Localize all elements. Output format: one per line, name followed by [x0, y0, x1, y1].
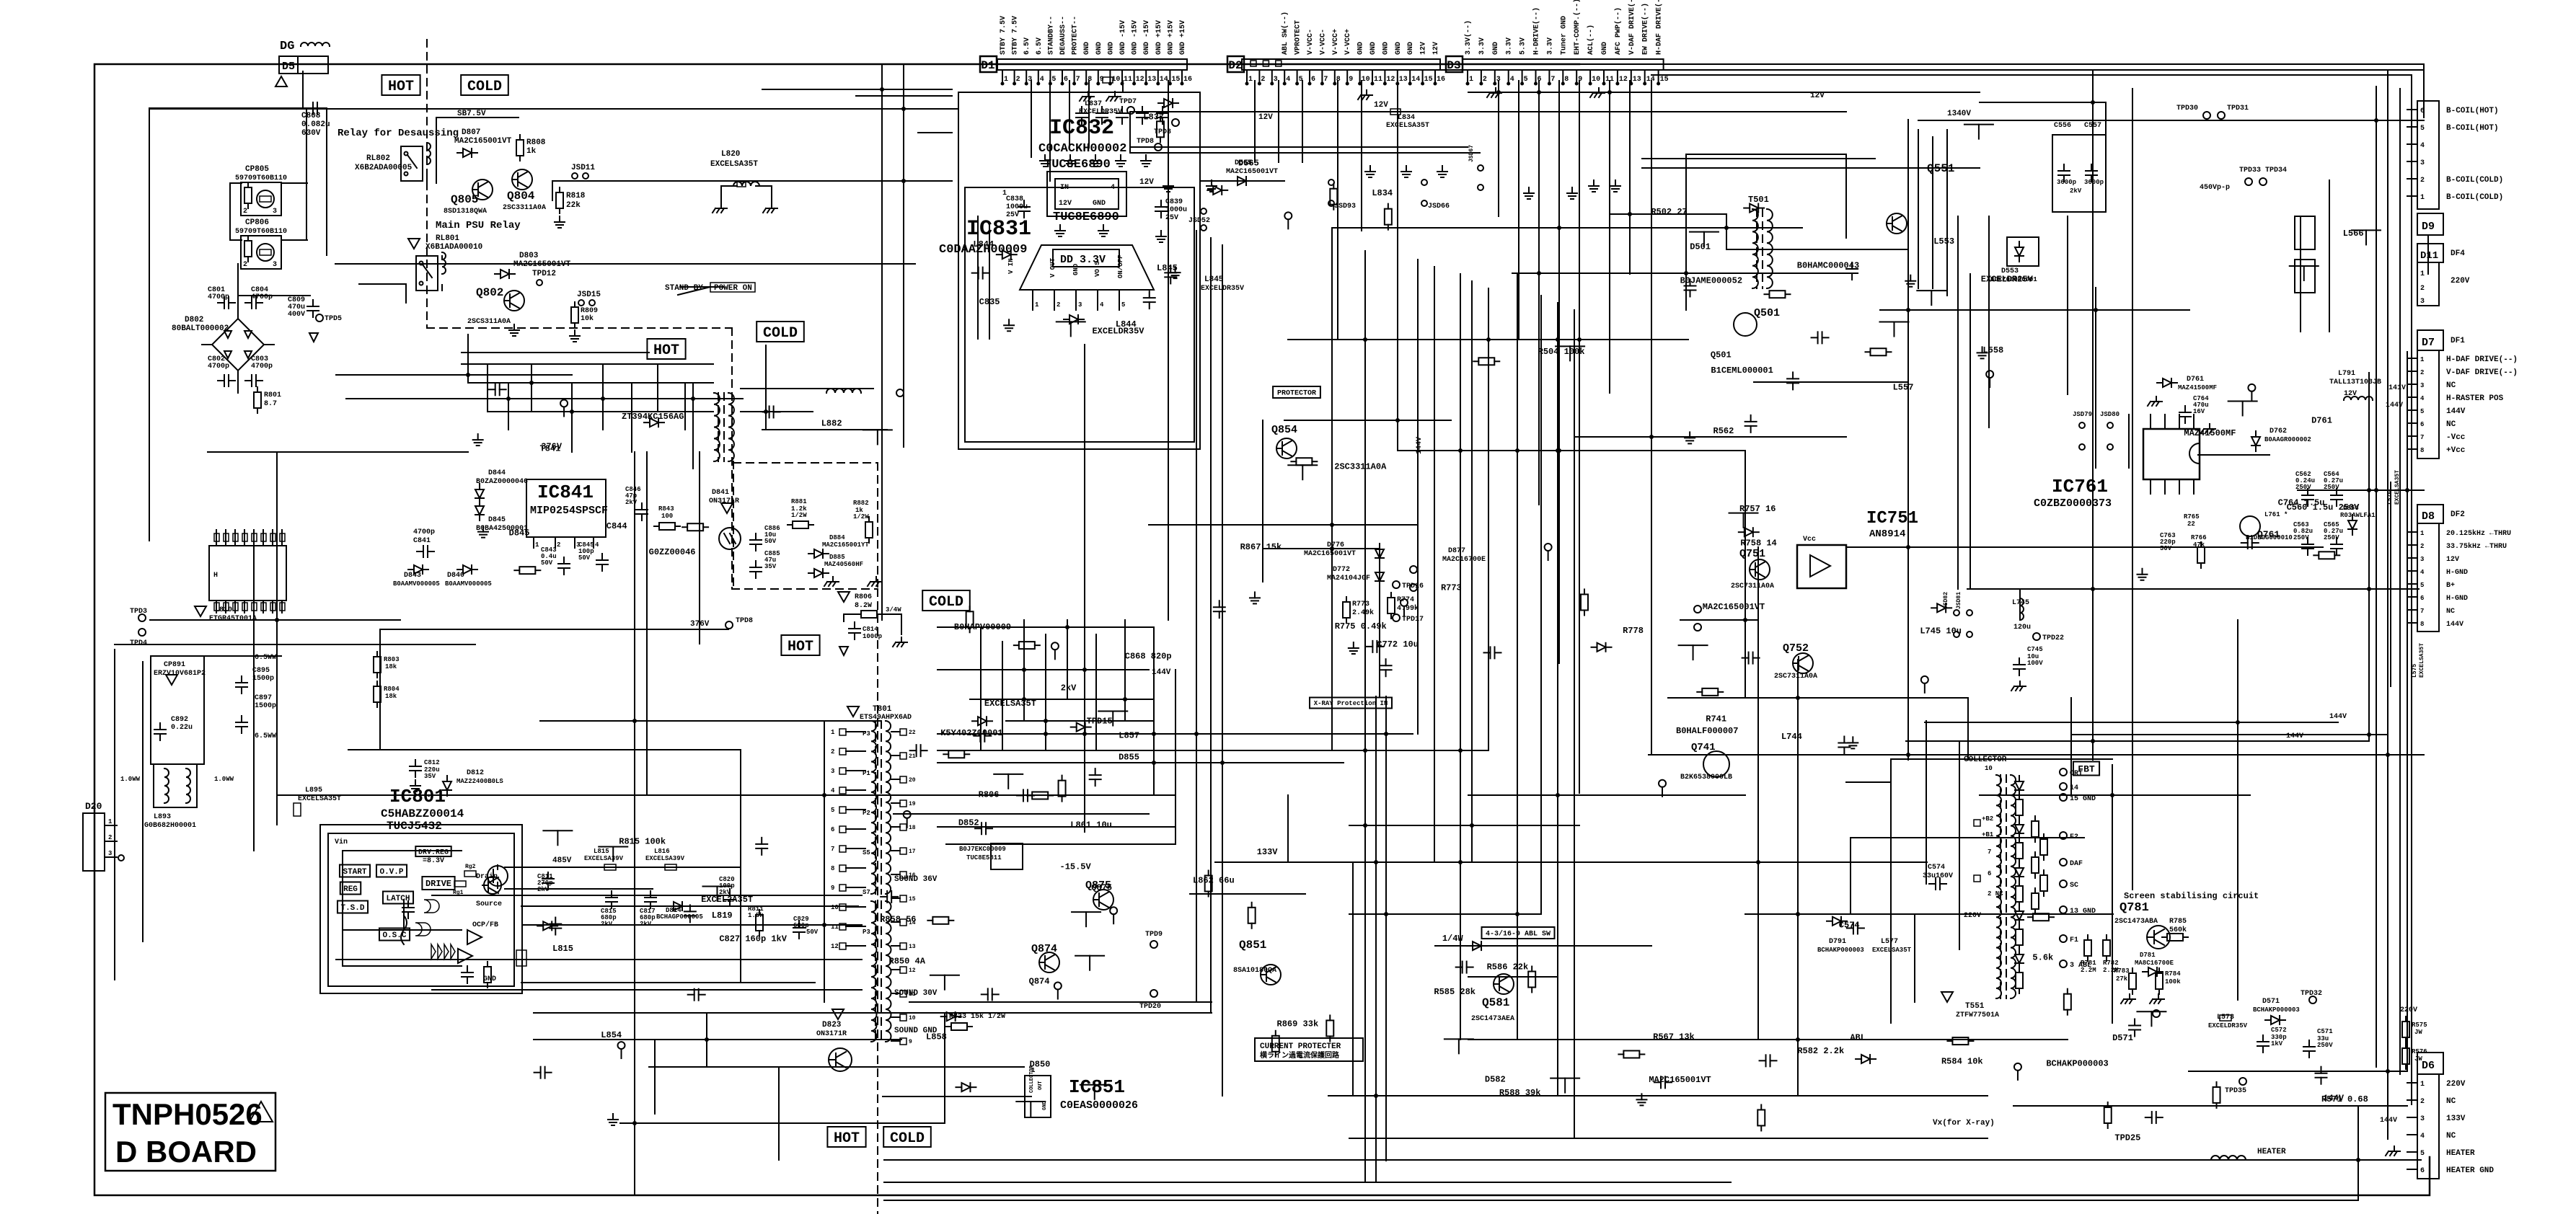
svg-text:VO S: VO S [1094, 261, 1101, 277]
svg-text:P3: P3 [863, 929, 870, 936]
svg-text:630V: 630V [301, 129, 321, 138]
svg-text:5: 5 [1121, 301, 1125, 309]
svg-text:COLD: COLD [763, 325, 798, 342]
svg-text:B2K6538000LB: B2K6538000LB [1680, 774, 1732, 781]
svg-text:50V: 50V [2160, 545, 2172, 552]
svg-text:1000u: 1000u [1006, 203, 1028, 211]
svg-text:D803: D803 [519, 252, 539, 260]
svg-text:D845: D845 [509, 528, 530, 539]
svg-text:33u160V: 33u160V [1923, 872, 1953, 880]
svg-text:V-VCC+: V-VCC+ [1332, 29, 1340, 55]
svg-text:D812: D812 [467, 769, 484, 777]
svg-text:D884: D884 [829, 534, 845, 541]
svg-text:GND +15V: GND +15V [1155, 20, 1163, 55]
svg-text:EXCELSA35T: EXCELSA35T [2419, 643, 2425, 678]
svg-text:CP891: CP891 [164, 661, 185, 669]
svg-text:GND: GND [1083, 42, 1091, 55]
svg-text:3: 3 [2420, 382, 2424, 389]
svg-text:NC: NC [2446, 1132, 2456, 1140]
svg-text:GND: GND [1407, 42, 1415, 55]
svg-text:V-VCC+: V-VCC+ [1344, 29, 1352, 55]
svg-text:2kV: 2kV [1061, 683, 1077, 693]
svg-text:5.6k: 5.6k [2032, 952, 2053, 962]
svg-text:1000u: 1000u [1165, 206, 1187, 214]
svg-text:R765: R765 [2184, 513, 2200, 520]
svg-text:13: 13 [909, 944, 916, 950]
svg-text:F2: F2 [2070, 833, 2078, 841]
svg-text:EXCELSA35T: EXCELSA35T [2394, 470, 2401, 505]
svg-text:ABL: ABL [1850, 1033, 1866, 1043]
svg-text:MA2C165001YT: MA2C165001YT [822, 541, 869, 549]
svg-text:D772: D772 [1333, 566, 1350, 574]
svg-text:1k: 1k [526, 147, 537, 156]
svg-text:12: 12 [1619, 76, 1628, 84]
svg-text:1: 1 [2420, 530, 2425, 537]
svg-text:4: 4 [595, 541, 599, 549]
svg-text:1000p: 1000p [863, 633, 882, 640]
svg-text:50V: 50V [578, 554, 591, 562]
svg-text:EXCELDR35V: EXCELDR35V [1092, 326, 1144, 336]
svg-text:EW DRIVE(--): EW DRIVE(--) [1641, 3, 1650, 55]
svg-text:Q781: Q781 [2120, 901, 2149, 915]
svg-text:D571: D571 [2112, 1033, 2133, 1043]
svg-text:L810: L810 [215, 606, 232, 614]
svg-text:R774: R774 [1397, 596, 1414, 604]
svg-text:Q802: Q802 [476, 286, 503, 299]
svg-text:START: START [343, 868, 366, 877]
svg-text:PROTECTOR: PROTECTOR [1277, 390, 1316, 398]
svg-text:2kV: 2kV [625, 499, 638, 506]
svg-text:GND: GND [1357, 42, 1365, 55]
svg-text:Q804: Q804 [507, 190, 535, 203]
svg-text:1: 1 [2420, 1081, 2425, 1089]
svg-text:5: 5 [2420, 408, 2424, 415]
svg-text:R571 0.68: R571 0.68 [2321, 1094, 2368, 1104]
svg-text:D877: D877 [1448, 547, 1465, 555]
svg-text:R562: R562 [1713, 426, 1734, 436]
svg-text:35V: 35V [424, 773, 436, 780]
svg-text:4: 4 [2420, 142, 2425, 150]
svg-text:3: 3 [273, 208, 277, 216]
svg-text:Q551: Q551 [1927, 162, 1954, 175]
svg-text:144V: 144V [2329, 713, 2347, 721]
svg-text:1500p: 1500p [252, 675, 274, 683]
svg-text:2SCS311A0A: 2SCS311A0A [467, 318, 511, 326]
svg-text:横ライン過電流保護回路: 横ライン過電流保護回路 [1260, 1050, 1340, 1060]
svg-text:TPD12: TPD12 [532, 270, 556, 278]
svg-text:JSD15: JSD15 [577, 291, 601, 299]
svg-text:V-VCC-: V-VCC- [1319, 29, 1327, 55]
svg-text:376V: 376V [690, 620, 710, 629]
svg-text:376V: 376V [541, 442, 563, 452]
svg-text:D776: D776 [1327, 541, 1344, 549]
svg-text:4.99k: 4.99k [1397, 604, 1419, 613]
svg-text:IN: IN [1060, 184, 1069, 192]
svg-text:11: 11 [1124, 76, 1132, 84]
svg-text:D840: D840 [447, 572, 464, 580]
svg-text:D802: D802 [185, 316, 203, 324]
svg-text:D5: D5 [282, 61, 295, 73]
svg-text:Vin: Vin [335, 838, 348, 846]
svg-text:D20: D20 [85, 801, 102, 812]
svg-text:8: 8 [2420, 621, 2424, 628]
svg-text:P3: P3 [863, 730, 870, 737]
svg-text:18: 18 [909, 825, 916, 831]
svg-text:Q805: Q805 [451, 193, 478, 206]
svg-text:C556: C556 [2054, 122, 2071, 130]
svg-text:ERZV10V681P2: ERZV10V681P2 [154, 670, 206, 678]
svg-text:IC841: IC841 [537, 482, 594, 503]
svg-text:JSD81: JSD81 [1956, 592, 1962, 609]
svg-text:12V: 12V [1374, 101, 1388, 110]
svg-text:2: 2 [2420, 369, 2424, 376]
svg-text:7: 7 [1323, 76, 1328, 84]
svg-text:5: 5 [1524, 76, 1528, 84]
svg-text:2: 2 [557, 541, 560, 549]
svg-text:COLD: COLD [890, 1130, 925, 1147]
svg-text:MA2C165001VT: MA2C165001VT [513, 260, 571, 269]
svg-text:STAND BY: STAND BY [665, 284, 703, 293]
svg-text:B0ZAZ0000046: B0ZAZ0000046 [476, 478, 528, 486]
svg-text:4700p: 4700p [251, 293, 273, 301]
svg-text:3: 3 [1078, 301, 1082, 309]
svg-text:IC761: IC761 [2052, 476, 2108, 497]
svg-text:Q851: Q851 [1239, 939, 1266, 952]
svg-text:Q581: Q581 [1482, 996, 1509, 1009]
svg-text:EXCEL2A35T: EXCEL2A35T [701, 895, 753, 905]
svg-text:L862 66u: L862 66u [1193, 875, 1235, 885]
svg-text:R504 100k: R504 100k [1538, 347, 1585, 357]
svg-text:TPD9: TPD9 [1145, 931, 1163, 939]
svg-text:TUC8E6890: TUC8E6890 [1044, 158, 1111, 172]
svg-text:11: 11 [831, 923, 839, 931]
svg-text:141V: 141V [2388, 384, 2406, 392]
svg-text:IC831: IC831 [966, 217, 1031, 242]
svg-text:1: 1 [1035, 301, 1039, 309]
svg-text:B1DEGG000010: B1DEGG000010 [2246, 534, 2293, 541]
svg-text:C835: C835 [979, 297, 1000, 307]
svg-text:R850 4A: R850 4A [889, 956, 926, 966]
svg-text:C814: C814 [863, 626, 878, 633]
svg-text:R867 15k: R867 15k [1240, 542, 1282, 552]
svg-text:EXCELDR35V: EXCELDR35V [1201, 285, 1244, 293]
svg-text:NC: NC [2446, 608, 2455, 616]
svg-text:L761 *: L761 * [2264, 511, 2288, 518]
svg-text:JW: JW [2414, 1029, 2422, 1036]
svg-text:10: 10 [831, 904, 839, 911]
svg-text:8SD1318QWA: 8SD1318QWA [444, 208, 487, 216]
svg-text:1: 1 [108, 818, 113, 825]
svg-text:C772 10u: C772 10u [1377, 639, 1419, 650]
svg-text:1.0WW: 1.0WW [120, 776, 141, 783]
svg-text:R881: R881 [791, 498, 807, 505]
svg-text:2: 2 [1483, 76, 1487, 84]
svg-text:=8.3V: =8.3V [423, 857, 444, 865]
svg-text:6: 6 [2420, 1167, 2425, 1175]
svg-text:TPD17: TPD17 [1402, 616, 1424, 624]
svg-text:21: 21 [909, 753, 916, 760]
svg-text:6: 6 [831, 826, 834, 833]
svg-text:144V: 144V [1152, 668, 1171, 677]
svg-text:HEATER: HEATER [2257, 1148, 2286, 1156]
svg-text:D885: D885 [829, 554, 845, 561]
svg-text:15: 15 [1171, 76, 1180, 84]
svg-text:T551: T551 [1965, 1002, 1985, 1011]
svg-text:2SC3311A0A: 2SC3311A0A [1334, 461, 1387, 471]
svg-text:D1: D1 [981, 59, 994, 72]
svg-text:TPD25: TPD25 [2114, 1133, 2140, 1143]
svg-text:D761: D761 [2187, 376, 2204, 384]
svg-text:R808: R808 [526, 138, 546, 147]
svg-text:B0AAGR000002: B0AAGR000002 [2264, 436, 2311, 443]
svg-text:10: 10 [909, 1015, 916, 1022]
svg-text:JSD79: JSD79 [2073, 411, 2092, 418]
svg-text:R809: R809 [581, 307, 598, 315]
svg-text:R843: R843 [658, 505, 674, 513]
svg-text:R869 33k: R869 33k [1277, 1019, 1319, 1029]
svg-text:ON3171R: ON3171R [709, 497, 739, 505]
svg-text:+B1: +B1 [1982, 831, 1994, 838]
svg-text:EXCELSA39V: EXCELSA39V [645, 855, 685, 862]
svg-text:9: 9 [909, 1039, 912, 1045]
svg-text:2SC1473AEA: 2SC1473AEA [1471, 1015, 1514, 1023]
svg-text:R03AWLFA1: R03AWLFA1 [2340, 512, 2376, 519]
svg-text:K5Y402Z00001: K5Y402Z00001 [940, 728, 1002, 738]
svg-text:5: 5 [2420, 582, 2424, 589]
svg-text:L861 10u: L861 10u [1070, 820, 1112, 830]
svg-text:B-COIL(COLD): B-COIL(COLD) [2446, 193, 2503, 202]
svg-text:L815: L815 [594, 848, 609, 855]
svg-text:4: 4 [2420, 395, 2425, 402]
svg-text:4700p: 4700p [208, 363, 229, 371]
svg-text:DRIVE: DRIVE [425, 879, 451, 889]
svg-text:1/4W: 1/4W [1442, 934, 1464, 944]
svg-text:25V: 25V [1006, 211, 1019, 219]
svg-text:144V: 144V [1416, 437, 1424, 454]
svg-text:10: 10 [1362, 76, 1370, 84]
svg-text:JSD80: JSD80 [2100, 411, 2120, 418]
svg-text:R801: R801 [264, 391, 281, 399]
svg-text:2.49k: 2.49k [1352, 608, 1374, 617]
svg-text:7: 7 [2420, 434, 2424, 441]
svg-text:+B2: +B2 [1982, 815, 1993, 823]
svg-text:13: 13 [1633, 76, 1641, 84]
svg-text:4700p: 4700p [413, 528, 435, 536]
svg-text:9: 9 [1349, 76, 1353, 84]
svg-text:Q874: Q874 [1029, 977, 1050, 987]
svg-text:D6: D6 [2422, 1060, 2435, 1072]
svg-text:4700p: 4700p [208, 293, 229, 301]
svg-text:D582: D582 [1485, 1075, 1506, 1085]
svg-text:16: 16 [1183, 76, 1192, 84]
svg-text:3: 3 [1274, 76, 1278, 84]
svg-text:1.0WW: 1.0WW [214, 776, 234, 783]
svg-text:1/2W: 1/2W [791, 512, 807, 519]
svg-text:L575: L575 [2412, 664, 2418, 678]
svg-text:50V: 50V [806, 929, 819, 936]
svg-text:3: 3 [108, 850, 112, 857]
svg-text:RL801: RL801 [436, 234, 459, 243]
svg-text:R588 39k: R588 39k [1499, 1088, 1541, 1098]
svg-text:GND -15V: GND -15V [1132, 20, 1139, 55]
svg-text:15: 15 [909, 896, 916, 903]
svg-text:B0AAMV000005: B0AAMV000005 [393, 580, 440, 588]
svg-text:-Vcc: -Vcc [2446, 433, 2465, 442]
svg-text:P2: P2 [863, 810, 870, 817]
svg-text:250V: 250V [2317, 1042, 2333, 1049]
svg-text:JSD66: JSD66 [1428, 203, 1450, 211]
svg-text:5: 5 [831, 807, 834, 814]
svg-text:HOT: HOT [834, 1130, 860, 1147]
svg-text:27k: 27k [2116, 975, 2128, 983]
svg-text:50V: 50V [764, 538, 777, 545]
svg-text:Q751: Q751 [1739, 548, 1765, 560]
svg-text:10: 10 [1592, 76, 1600, 84]
svg-text:12: 12 [1386, 76, 1395, 84]
svg-text:1/2W: 1/2W [853, 513, 869, 520]
svg-text:B-COIL(HOT): B-COIL(HOT) [2446, 124, 2499, 133]
svg-text:8: 8 [2420, 447, 2424, 454]
svg-text:R815 100k: R815 100k [619, 836, 666, 846]
svg-text:3.3V(--): 3.3V(--) [1464, 20, 1473, 55]
svg-text:C838: C838 [1006, 195, 1023, 203]
svg-text:L882: L882 [821, 418, 842, 428]
svg-text:144V: 144V [2446, 621, 2463, 629]
svg-text:L857: L857 [1119, 730, 1139, 740]
svg-text:C892: C892 [171, 716, 188, 724]
svg-text:R818: R818 [566, 192, 586, 200]
svg-text:2: 2 [2420, 177, 2425, 185]
svg-text:144V: 144V [2446, 407, 2466, 416]
svg-text:220V: 220V [1964, 912, 1981, 920]
svg-text:OCP/FB: OCP/FB [472, 921, 498, 929]
svg-text:18k: 18k [385, 663, 397, 670]
svg-text:2: 2 [2420, 543, 2424, 550]
svg-text:VPROTECT: VPROTECT [1294, 20, 1302, 55]
svg-text:6.5V: 6.5V [1023, 37, 1031, 55]
svg-text:MA24104J0F: MA24104J0F [1327, 575, 1370, 582]
svg-text:25V: 25V [1165, 214, 1178, 222]
svg-text:18k: 18k [385, 693, 397, 700]
svg-text:CURRENT PROTECTER: CURRENT PROTECTER [1260, 1042, 1341, 1051]
svg-text:MAZ40560HF: MAZ40560HF [824, 561, 863, 568]
svg-text:B+: B+ [2446, 582, 2455, 590]
svg-text:6: 6 [1311, 76, 1315, 84]
svg-text:R773: R773 [1441, 582, 1462, 593]
svg-text:B-COIL(COLD): B-COIL(COLD) [2446, 176, 2503, 185]
svg-text:L819: L819 [712, 910, 733, 921]
svg-text:133V: 133V [1257, 847, 1279, 857]
svg-text:L816: L816 [654, 848, 670, 855]
svg-text:MA8C16700E: MA8C16700E [2135, 960, 2174, 967]
svg-text:ETS49AHPX6AD: ETS49AHPX6AD [860, 714, 912, 722]
svg-text:DG: DG [280, 40, 294, 53]
svg-text:4: 4 [831, 787, 835, 794]
svg-text:3.3V: 3.3V [1546, 37, 1554, 55]
svg-text:STBY 7.5V: STBY 7.5V [1012, 16, 1020, 55]
svg-text:ETGR45T001A: ETGR45T001A [209, 615, 257, 623]
svg-text:L854: L854 [601, 1030, 622, 1040]
svg-text:C897: C897 [255, 694, 272, 702]
svg-text:GND: GND [1093, 200, 1106, 208]
svg-text:SOUND 36V: SOUND 36V [894, 875, 938, 884]
svg-text:BCHAGP000005: BCHAGP000005 [656, 913, 703, 921]
svg-text:EXCELSA35T: EXCELSA35T [1872, 947, 1912, 954]
svg-text:2: 2 [108, 834, 112, 841]
svg-text:220V: 220V [2446, 1080, 2466, 1089]
svg-text:V-VCC-: V-VCC- [1307, 29, 1315, 55]
svg-text:3: 3 [2420, 556, 2424, 563]
svg-text:DF4: DF4 [2451, 249, 2465, 258]
svg-text:REG: REG [343, 885, 358, 894]
svg-text:L744: L744 [1781, 732, 1802, 742]
svg-text:L837: L837 [1085, 100, 1102, 108]
svg-text:TPD20: TPD20 [1139, 1003, 1161, 1011]
svg-text:Main PSU Relay: Main PSU Relay [436, 220, 521, 231]
svg-text:B0HALF000007: B0HALF000007 [1676, 726, 1738, 736]
svg-text:2SC7311A0A: 2SC7311A0A [1731, 582, 1774, 590]
svg-text:R586 22k: R586 22k [1487, 962, 1529, 972]
svg-text:R775 0.49k: R775 0.49k [1335, 621, 1387, 632]
svg-text:Vx(for X-ray): Vx(for X-ray) [1933, 1119, 1995, 1127]
svg-text:OUT: OUT [1038, 1081, 1044, 1090]
svg-text:T501: T501 [1748, 195, 1769, 205]
svg-text:R803: R803 [384, 656, 400, 663]
svg-text:MIP0254SPSCF: MIP0254SPSCF [530, 505, 608, 517]
svg-text:GND: GND [1042, 1101, 1048, 1110]
svg-text:1340V: 1340V [1947, 110, 1971, 118]
svg-text:2: 2 [243, 208, 247, 216]
svg-text:250V: 250V [2293, 534, 2309, 541]
svg-text:C0EAS0000026: C0EAS0000026 [1060, 1099, 1138, 1112]
svg-text:TPD7: TPD7 [1119, 98, 1137, 106]
svg-text:2kV: 2kV [601, 921, 613, 928]
svg-text:5: 5 [1051, 76, 1056, 84]
svg-text:C745: C745 [2027, 646, 2043, 653]
svg-text:4: 4 [2420, 1133, 2425, 1140]
svg-text:C839: C839 [1165, 198, 1183, 206]
svg-text:B0JAME000052: B0JAME000052 [1680, 276, 1742, 286]
svg-text:L566: L566 [2343, 229, 2364, 239]
svg-text:R582 2.2k: R582 2.2k [1797, 1046, 1844, 1056]
svg-text:TUCJ5432: TUCJ5432 [387, 820, 442, 833]
svg-text:C868 820p: C868 820p [1125, 651, 1172, 661]
svg-text:D844: D844 [488, 469, 506, 477]
svg-text:H-DAF DRIVE(--): H-DAF DRIVE(--) [2446, 355, 2518, 364]
svg-text:1kV: 1kV [2271, 1040, 2283, 1047]
svg-text:9: 9 [831, 885, 834, 892]
svg-text:B0J7EKC00009: B0J7EKC00009 [959, 846, 1006, 853]
svg-text:4-3/16-9 ABL SW: 4-3/16-9 ABL SW [1486, 930, 1551, 939]
svg-text:4: 4 [2420, 569, 2425, 576]
svg-text:2SC7311A0A: 2SC7311A0A [1774, 673, 1817, 681]
svg-text:100k: 100k [2165, 978, 2181, 985]
svg-text:D BOARD: D BOARD [115, 1135, 257, 1169]
svg-text:12V: 12V [1432, 42, 1440, 55]
svg-text:TPD33 TPD34: TPD33 TPD34 [2239, 167, 2287, 174]
svg-text:GND: GND [1492, 42, 1500, 55]
svg-text:12V: 12V [2446, 556, 2459, 564]
svg-text:0.082u: 0.082u [301, 120, 330, 129]
svg-text:2SC3311A0A: 2SC3311A0A [503, 204, 546, 212]
svg-text:C5HABZZ00014: C5HABZZ00014 [381, 807, 464, 820]
svg-text:H-DRIVE(--): H-DRIVE(--) [1532, 7, 1541, 55]
svg-text:O.V.P: O.V.P [379, 868, 403, 877]
svg-text:C574: C574 [1839, 920, 1860, 930]
svg-text:D843: D843 [404, 572, 421, 580]
svg-text:R806: R806 [855, 593, 872, 601]
svg-text:3/4W: 3/4W [886, 606, 901, 613]
